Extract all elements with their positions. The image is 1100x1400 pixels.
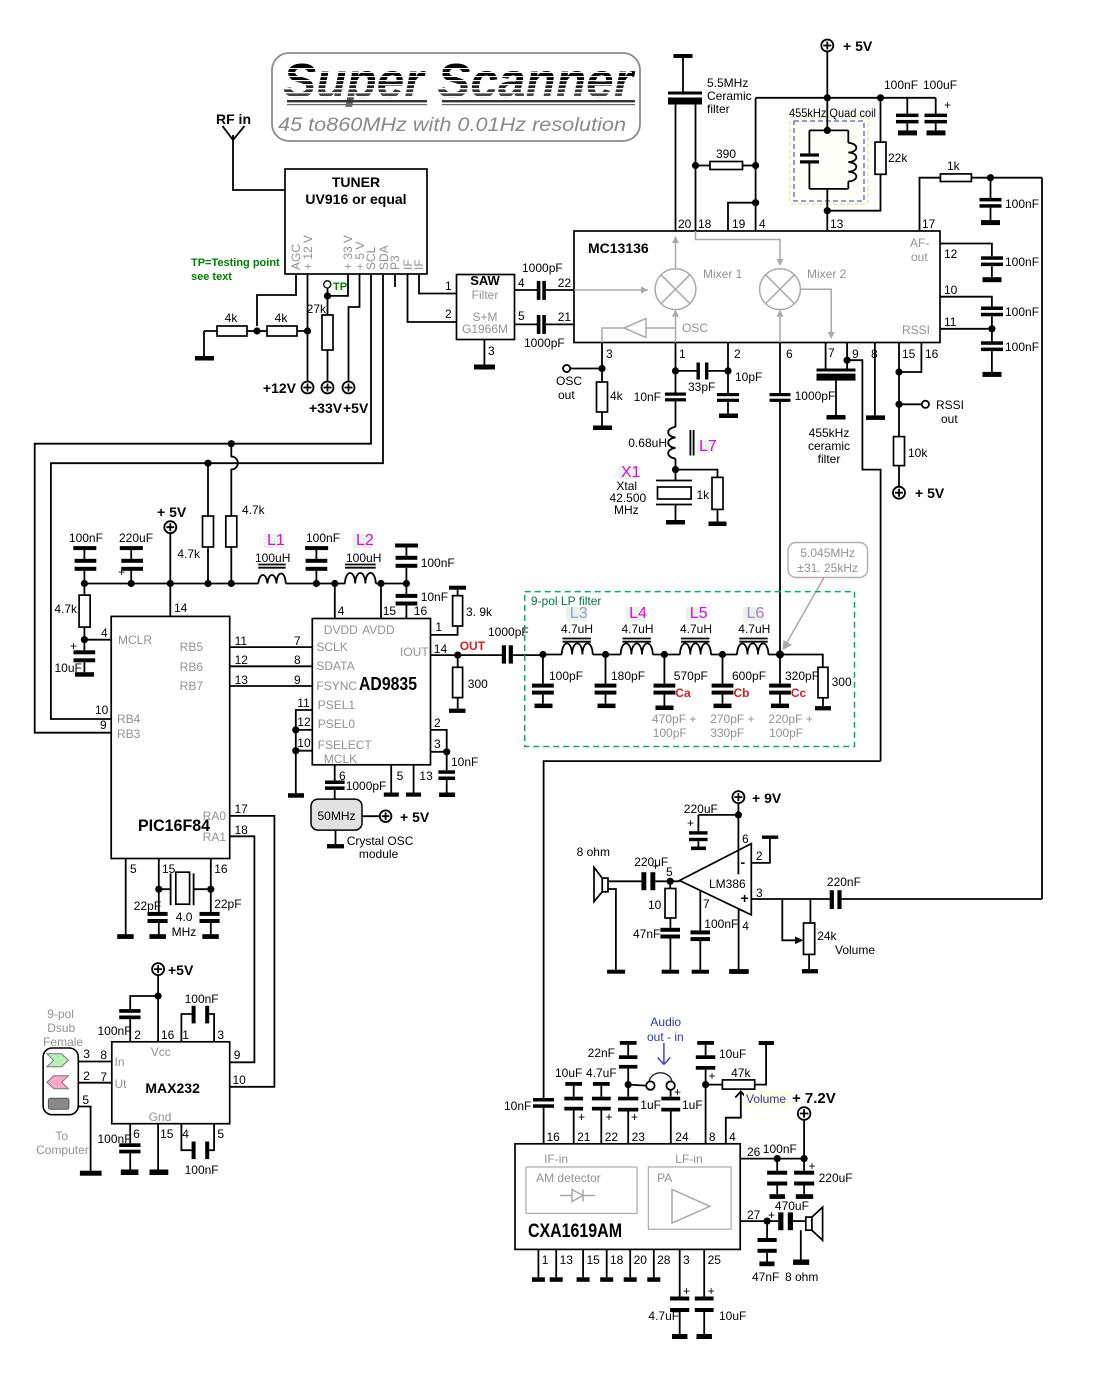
inductor quad <box>848 143 856 182</box>
ground 10uF <box>75 672 94 677</box>
svg-text:12: 12 <box>297 715 311 729</box>
wire pin11 <box>940 328 992 330</box>
svg-text:1: 1 <box>679 347 686 361</box>
label audio out-in <box>647 1015 684 1065</box>
ground <box>384 793 399 797</box>
node <box>824 94 831 101</box>
resistor 4.7k sda <box>177 516 213 584</box>
svg-text:OSC: OSC <box>556 374 582 388</box>
resistor 4k osc <box>597 369 624 426</box>
svg-text:CXA1619AM: CXA1619AM <box>528 1221 622 1242</box>
capacitor 100nF max vcc <box>98 996 159 1042</box>
svg-text:19: 19 <box>732 217 746 231</box>
wire LP main line <box>543 655 823 668</box>
svg-text:9-pol: 9-pol <box>47 1007 74 1021</box>
svg-text:OUT: OUT <box>460 639 486 653</box>
svg-text:25: 25 <box>708 1253 722 1267</box>
svg-text:10nF: 10nF <box>504 1099 531 1113</box>
MAX232 box <box>112 1042 230 1124</box>
svg-text:5: 5 <box>130 862 137 876</box>
svg-text:1: 1 <box>445 279 452 293</box>
svg-text:5.045MHz: 5.045MHz <box>800 546 855 560</box>
node fselect <box>292 747 299 754</box>
capacitor 220nF <box>827 875 1042 909</box>
ground <box>406 793 421 797</box>
node lp3 <box>661 651 668 658</box>
svg-text:8: 8 <box>294 653 301 667</box>
svg-text:RB3: RB3 <box>117 727 141 741</box>
svg-text:PA: PA <box>657 1171 672 1185</box>
svg-text:+: + <box>809 1159 816 1173</box>
svg-text:100uH: 100uH <box>346 551 381 565</box>
resistor 300 lp <box>815 667 852 710</box>
capacitor 100nF af1 <box>980 178 1040 220</box>
svg-text:100nF: 100nF <box>306 531 340 545</box>
capacitor 10uF cxa8 <box>696 1041 747 1085</box>
svg-text:15: 15 <box>587 1253 601 1267</box>
svg-text:9: 9 <box>852 347 859 361</box>
svg-text:+ 5V: + 5V <box>157 504 187 520</box>
ground <box>983 372 1002 377</box>
antenna RF in <box>216 111 285 190</box>
capacitor 1000pF saw pin4 <box>515 261 575 300</box>
svg-text:11: 11 <box>297 696 310 710</box>
ground <box>981 220 1000 225</box>
svg-text:Vcc: Vcc <box>151 1045 171 1059</box>
svg-text:21: 21 <box>577 1130 591 1144</box>
node xtal right <box>207 886 214 893</box>
svg-text:22: 22 <box>558 276 572 290</box>
ground SAW <box>474 340 495 370</box>
svg-text:±31. 25kHz: ±31. 25kHz <box>797 561 858 575</box>
capacitor 470uF <box>768 1199 809 1230</box>
svg-text:100nF: 100nF <box>98 1132 132 1146</box>
wire pin2 <box>727 343 729 371</box>
svg-text:3: 3 <box>606 347 613 361</box>
svg-text:RA1: RA1 <box>203 830 227 844</box>
svg-text:IOUT: IOUT <box>400 645 429 659</box>
svg-text:G1966M: G1966M <box>462 322 508 336</box>
svg-text:AD9835: AD9835 <box>359 674 417 694</box>
svg-text:10: 10 <box>233 1073 247 1087</box>
balloon 5.045MHz <box>783 543 868 651</box>
svg-text:28: 28 <box>657 1253 671 1267</box>
capacitor 22pF right <box>200 889 242 939</box>
capacitor 100uF top <box>923 78 957 130</box>
wire pin9 <box>846 343 848 361</box>
svg-text:9: 9 <box>100 718 107 732</box>
resistor 1k AF <box>920 159 1043 231</box>
svg-text:18: 18 <box>235 823 249 837</box>
svg-text:10nF: 10nF <box>634 390 661 404</box>
node 27 <box>764 1218 771 1225</box>
capacitor 100nF cxa26 <box>767 1159 787 1199</box>
svg-text:MCLK: MCLK <box>324 752 357 766</box>
wire pin1 <box>675 343 677 371</box>
svg-text:L3: L3 <box>570 605 588 622</box>
capacitor 10uF mclr <box>55 639 96 675</box>
wire +5V pin <box>349 274 360 382</box>
SAW filter box <box>457 273 515 340</box>
svg-text:330pF: 330pF <box>710 726 744 740</box>
svg-text:22pF: 22pF <box>214 897 241 911</box>
wire pin9 to audio section <box>847 360 881 761</box>
ground psel <box>288 793 304 798</box>
testpoint TP <box>324 281 347 296</box>
svg-text:3. 9k: 3. 9k <box>466 605 493 619</box>
node lp2 <box>602 651 609 658</box>
svg-text:9: 9 <box>234 1048 241 1062</box>
supply +5V mid <box>157 504 187 584</box>
svg-text:1: 1 <box>182 1028 189 1042</box>
svg-text:+: + <box>674 1085 681 1099</box>
node pin11 <box>988 325 995 332</box>
capacitor 570pF Ca <box>654 655 708 711</box>
resistor 27k <box>307 296 333 382</box>
svg-text:+ 7.2V: + 7.2V <box>792 1090 836 1107</box>
ground <box>898 130 917 135</box>
resistor 1k osc <box>676 470 727 526</box>
node AGC divider <box>253 327 260 334</box>
svg-text:4.7uF: 4.7uF <box>648 1309 679 1323</box>
wire +5V rail top <box>756 97 936 99</box>
wire pin15 max gnd <box>157 1124 159 1170</box>
node SCL tap <box>228 440 235 447</box>
svg-text:Crystal OSC: Crystal OSC <box>347 834 414 848</box>
capacitor 100nF avdd <box>395 544 455 584</box>
terminal OSC out <box>556 365 602 402</box>
svg-text:220nF: 220nF <box>827 875 861 889</box>
svg-text:320pF: 320pF <box>785 669 819 683</box>
grey arrow pin22 to mixer1 <box>574 287 648 294</box>
svg-text:4.7k: 4.7k <box>177 547 201 561</box>
svg-text:11: 11 <box>944 315 957 329</box>
grey arrow osc to mixer1 and pin20 <box>672 236 679 343</box>
svg-text:0.68uH: 0.68uH <box>628 436 667 450</box>
inductor L4 4.7uH <box>621 605 654 655</box>
svg-text:+ 12 V: + 12 V <box>301 235 315 270</box>
terminal RSSI out <box>899 398 964 426</box>
svg-text:5: 5 <box>217 1127 224 1141</box>
capacitor 220uF cxa26 <box>794 1159 853 1199</box>
AM detector block <box>526 1167 637 1213</box>
wire IF1 to SAW pin2 <box>408 274 457 322</box>
svg-text:455kHz Quad coil: 455kHz Quad coil <box>789 106 876 120</box>
label volume cxa <box>744 1092 790 1106</box>
svg-text:+: + <box>944 98 951 112</box>
svg-text:4.7uH: 4.7uH <box>561 622 593 636</box>
ground AGC <box>195 356 214 361</box>
svg-text:300: 300 <box>468 677 488 691</box>
capacitor 100nF max6 <box>98 1124 141 1175</box>
svg-text:Ut: Ut <box>115 1077 128 1091</box>
svg-text:RB6: RB6 <box>180 660 204 674</box>
svg-text:390: 390 <box>716 147 736 161</box>
svg-text:Mixer 1: Mixer 1 <box>703 267 743 281</box>
svg-text:In: In <box>115 1055 125 1069</box>
inductor L1 100uH <box>255 532 290 584</box>
svg-text:4.7uH: 4.7uH <box>622 622 654 636</box>
svg-text:SAW: SAW <box>470 273 500 288</box>
wire filter to pin18 <box>695 105 697 232</box>
svg-text:module: module <box>359 847 399 861</box>
capacitor 220uF speaker <box>634 855 679 890</box>
svg-text:DVDD: DVDD <box>324 623 358 637</box>
ground <box>593 426 612 431</box>
svg-text:7: 7 <box>294 634 301 648</box>
svg-text:11: 11 <box>235 634 248 648</box>
svg-text:14: 14 <box>174 601 188 615</box>
capacitor 1000pF saw pin5 <box>515 315 575 350</box>
node rail joints <box>81 580 88 587</box>
svg-text:4: 4 <box>338 604 345 618</box>
svg-text:16: 16 <box>925 347 939 361</box>
svg-text:8 ohm: 8 ohm <box>785 1270 818 1284</box>
resistor 300 dds <box>453 655 489 709</box>
svg-text:5.5MHz: 5.5MHz <box>707 76 748 90</box>
svg-text:22pF: 22pF <box>134 899 161 913</box>
svg-text:L4: L4 <box>629 605 647 622</box>
PA block <box>648 1167 731 1229</box>
svg-text:+: + <box>578 1110 585 1124</box>
svg-text:Cc: Cc <box>791 686 807 700</box>
grey arrow mixer2 to pin7 <box>800 289 834 339</box>
mixer 1 <box>655 269 696 310</box>
potentiometer 47k <box>706 1041 774 1089</box>
svg-text:220uF: 220uF <box>119 531 153 545</box>
svg-text:300: 300 <box>832 675 852 689</box>
node jumper left <box>625 1081 632 1088</box>
capacitor 1000pF out <box>488 625 543 664</box>
supply +33V <box>309 382 343 417</box>
capacitor 10nF mclk <box>438 752 478 793</box>
capacitor 1000pF pin6 <box>770 343 836 655</box>
svg-text:OSC: OSC <box>682 321 708 335</box>
svg-text:4: 4 <box>101 626 108 640</box>
ground <box>117 934 134 939</box>
svg-text:15: 15 <box>162 862 176 876</box>
svg-text:TUNER: TUNER <box>332 174 380 190</box>
tuner UV916 <box>285 169 427 274</box>
node mclr <box>81 636 88 643</box>
svg-text:Volume: Volume <box>835 943 875 957</box>
svg-text:4k: 4k <box>610 389 624 403</box>
svg-text:ceramic: ceramic <box>808 439 850 453</box>
svg-text:+: + <box>709 1069 716 1083</box>
svg-text:470pF +: 470pF + <box>652 712 696 726</box>
capacitor 10nF avdd <box>396 584 448 619</box>
wire audio link lp to cxa <box>544 761 881 1098</box>
node <box>877 94 884 101</box>
wire PIC pin5 gnd <box>125 859 127 935</box>
svg-text:10uF: 10uF <box>719 1309 746 1323</box>
svg-text:Gnd: Gnd <box>149 1110 172 1124</box>
ground <box>439 793 455 798</box>
svg-text:Ceramic: Ceramic <box>707 89 752 103</box>
svg-text:+: + <box>631 1110 638 1124</box>
svg-text:FSYNC: FSYNC <box>316 679 357 693</box>
dsub connector <box>43 1048 78 1115</box>
svg-text:+: + <box>708 1284 715 1298</box>
svg-text:22: 22 <box>605 1130 619 1144</box>
svg-text:6: 6 <box>133 1127 140 1141</box>
svg-text:+: + <box>741 890 749 906</box>
svg-text:Audio: Audio <box>650 1015 681 1029</box>
svg-text:100nF: 100nF <box>185 992 219 1006</box>
node lp5 <box>776 651 784 659</box>
wire right rail long <box>1041 178 1043 899</box>
node xtal left <box>155 886 162 893</box>
svg-text:10pF: 10pF <box>735 370 762 384</box>
svg-text:18: 18 <box>698 217 712 231</box>
svg-text:47nF: 47nF <box>752 1270 779 1284</box>
svg-text:23: 23 <box>632 1130 646 1144</box>
ground bars cxa <box>532 1277 660 1282</box>
capacitor 10nF cxa16 <box>504 1098 554 1144</box>
svg-text:+ 9V: + 9V <box>752 790 782 806</box>
svg-text:100nF: 100nF <box>1005 305 1039 319</box>
ground <box>927 130 946 135</box>
svg-text:8 ohm: 8 ohm <box>577 845 610 859</box>
svg-text:5: 5 <box>397 769 404 783</box>
svg-text:1: 1 <box>542 1253 549 1267</box>
svg-text:10k: 10k <box>908 446 928 460</box>
wire IF2 to SAW pin1 <box>419 274 457 294</box>
svg-text:45 to860MHz with 0.01Hz resolu: 45 to860MHz with 0.01Hz resolution <box>278 115 626 136</box>
wire PSEL chain to ground <box>296 710 313 793</box>
node psel0 <box>292 726 299 733</box>
wire IOUT out <box>431 654 503 656</box>
ceramic filter 455kHz <box>808 343 856 467</box>
wire filter to pin20 <box>675 105 677 232</box>
quad coil tank wiring <box>809 98 848 231</box>
svg-text:1000pF: 1000pF <box>524 336 565 350</box>
node pin2 <box>724 367 731 374</box>
svg-text:out: out <box>941 412 958 426</box>
svg-text:15: 15 <box>160 1127 174 1141</box>
svg-text:220pF +: 220pF + <box>768 712 812 726</box>
svg-text:+: + <box>768 1208 775 1222</box>
wire pin2 pin3 <box>431 730 447 752</box>
svg-text:FSELECT: FSELECT <box>318 738 373 752</box>
wire P3 stub <box>394 274 396 287</box>
capacitor 4.7uF cxa22 <box>586 1066 617 1144</box>
svg-text:filter: filter <box>818 452 841 466</box>
svg-text:MHz: MHz <box>614 503 639 517</box>
svg-text:220uF: 220uF <box>684 802 718 816</box>
wire pin8 down <box>705 1085 707 1144</box>
svg-text:RB7: RB7 <box>180 679 204 693</box>
inductor L7 0.68uH <box>628 427 717 470</box>
svg-text:3: 3 <box>488 344 495 358</box>
svg-text:20: 20 <box>678 217 692 231</box>
PIC16F84 box <box>111 616 230 858</box>
node quad bottom <box>824 207 831 214</box>
svg-text:100nF: 100nF <box>69 531 103 545</box>
wire dsub5 to gnd <box>78 1107 90 1171</box>
wire avdd dvdd pins <box>335 584 381 619</box>
node pin3 <box>443 748 450 755</box>
svg-text:+: + <box>606 1110 613 1124</box>
svg-text:+ 5V: + 5V <box>915 485 945 501</box>
svg-text:4.0: 4.0 <box>176 910 193 924</box>
resistor 3.9k <box>431 586 494 635</box>
svg-text:100pF: 100pF <box>549 669 583 683</box>
svg-text:10nF: 10nF <box>451 755 478 769</box>
svg-text:14: 14 <box>434 642 448 656</box>
wire pin5 gnd <box>390 765 392 793</box>
svg-text:20: 20 <box>634 1253 648 1267</box>
capacitor 1uF cxa24 <box>661 1085 702 1144</box>
wire +5V rail middle <box>84 583 406 585</box>
svg-text:TP=Testing point: TP=Testing point <box>191 257 280 269</box>
wire pin2 to gnd <box>751 839 770 863</box>
opamp LM386 <box>680 844 752 915</box>
svg-text:+: + <box>652 859 659 873</box>
wire SDA bus <box>51 274 383 719</box>
node 9v <box>735 811 742 818</box>
svg-text:9: 9 <box>294 673 301 687</box>
svg-text:Dsub: Dsub <box>47 1021 75 1035</box>
wire AGC <box>257 274 296 326</box>
arrow pot wiper <box>795 937 804 945</box>
svg-text:9-pol LP filter: 9-pol LP filter <box>531 594 601 608</box>
svg-text:1000pF: 1000pF <box>522 261 563 275</box>
wire mclr <box>84 639 111 641</box>
svg-text:24: 24 <box>675 1130 689 1144</box>
svg-text:27: 27 <box>747 1208 761 1222</box>
svg-text:4k: 4k <box>225 311 239 325</box>
wire gnd pins cxa <box>538 1249 653 1277</box>
svg-text:3: 3 <box>434 737 441 751</box>
supply +5V max <box>152 962 194 1042</box>
svg-text:3: 3 <box>217 1028 224 1042</box>
svg-text:10: 10 <box>648 898 662 912</box>
svg-text:100nF: 100nF <box>1005 255 1039 269</box>
svg-text:4: 4 <box>742 919 749 933</box>
svg-text:16: 16 <box>547 1130 561 1144</box>
svg-text:7: 7 <box>828 346 835 360</box>
resistor 10 <box>648 881 676 928</box>
svg-text:22k: 22k <box>888 151 908 165</box>
wire rail to pin19 pin4 <box>728 98 756 231</box>
grey arrow pin18 to mixer2 <box>696 231 784 266</box>
svg-text:IF: IF <box>412 259 426 270</box>
supply +7.2V <box>792 1090 836 1159</box>
ground <box>719 414 738 419</box>
svg-text:4: 4 <box>182 1127 189 1141</box>
svg-text:PIC16F84: PIC16F84 <box>138 816 211 835</box>
quad coil box <box>789 106 876 204</box>
svg-text:100nF: 100nF <box>704 917 738 931</box>
svg-text:8: 8 <box>709 1130 716 1144</box>
svg-text:15: 15 <box>902 347 916 361</box>
resistor 4.7k mclr <box>54 584 90 640</box>
crystal X1 42.500MHz <box>610 464 693 525</box>
svg-text:4k: 4k <box>275 311 289 325</box>
svg-text:1000pF: 1000pF <box>488 625 529 639</box>
svg-text:+: + <box>687 816 694 830</box>
svg-text:10: 10 <box>95 703 109 717</box>
svg-text:2: 2 <box>83 1069 90 1083</box>
svg-text:PSEL0: PSEL0 <box>318 717 356 731</box>
capacitor 100nF lm <box>691 917 739 974</box>
svg-text:5: 5 <box>518 309 525 323</box>
wire wiper branch <box>782 899 799 940</box>
capacitor 47nF lm <box>633 927 680 974</box>
svg-text:10nF: 10nF <box>421 590 448 604</box>
wire dsub2 to Ut <box>78 1082 112 1084</box>
